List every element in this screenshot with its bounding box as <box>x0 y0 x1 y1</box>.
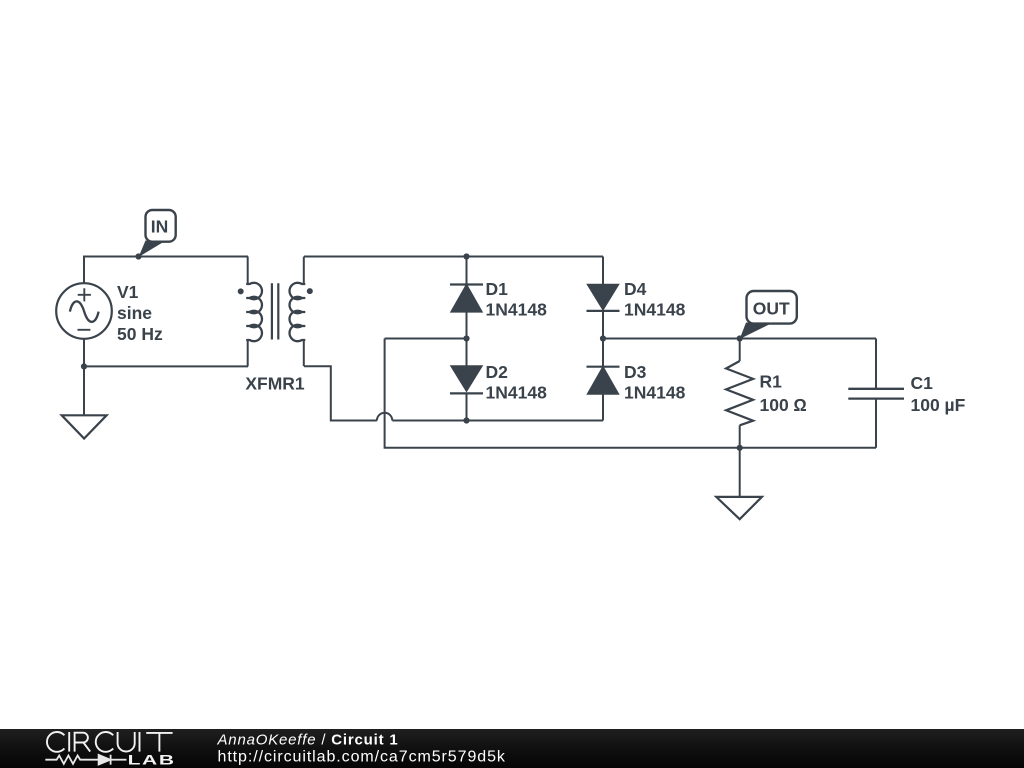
node OUT / R1 top <box>737 335 743 341</box>
svg-text:D4: D4 <box>624 279 647 299</box>
label C1 <box>911 373 966 415</box>
svg-text:D2: D2 <box>486 362 509 382</box>
wire V1 bottom to transformer primary bottom <box>84 339 248 367</box>
flag OUT <box>740 291 797 339</box>
transformer XFMR1 secondary winding <box>290 257 306 367</box>
svg-text:1N4148: 1N4148 <box>486 300 548 320</box>
svg-text:1N4148: 1N4148 <box>624 383 686 403</box>
diode D4 <box>587 257 620 339</box>
svg-text:AnnaOKeeffe / Circuit 1: AnnaOKeeffe / Circuit 1 <box>217 732 399 749</box>
svg-text:sine: sine <box>117 303 152 323</box>
wire V1 top to transformer primary <box>84 257 248 284</box>
svg-text:50 Hz: 50 Hz <box>117 324 163 344</box>
node D1/D2 junction <box>463 335 469 341</box>
wire mid rail D4/D3 junction to OUT / R1 / C1 <box>603 338 876 340</box>
svg-text:LAB: LAB <box>128 752 176 768</box>
logo resistor-diode glyph <box>45 755 126 765</box>
node top rail / D1 <box>463 253 469 259</box>
wire diode bottom rail <box>392 420 603 422</box>
svg-text:OUT: OUT <box>753 299 790 319</box>
flag IN <box>139 210 176 257</box>
label D4 <box>624 279 686 320</box>
transformer XFMR1 primary winding <box>246 257 262 367</box>
node D4/D3 junction <box>600 335 606 341</box>
transformer primary polarity dot <box>238 288 244 294</box>
transformer secondary polarity dot <box>307 288 313 294</box>
diode D3 <box>587 339 620 421</box>
svg-text:D3: D3 <box>624 362 647 382</box>
node IN junction <box>135 253 141 259</box>
label D2 <box>486 362 548 403</box>
voltage source V1 <box>56 283 112 339</box>
label D3 <box>624 362 686 403</box>
capacitor C1 <box>848 339 904 448</box>
label V1 value <box>117 282 163 344</box>
svg-text:http://circuitlab.com/ca7cm5r5: http://circuitlab.com/ca7cm5r579d5k <box>218 749 506 766</box>
svg-text:1N4148: 1N4148 <box>624 300 686 320</box>
resistor R1 <box>726 339 753 448</box>
svg-text:V1: V1 <box>117 282 139 302</box>
label D1 <box>486 279 548 320</box>
node D2 bottom rail <box>463 417 469 423</box>
diode D1 <box>450 257 483 339</box>
logo CIRCUIT wordmark <box>47 732 173 752</box>
svg-text:100 µF: 100 µF <box>911 395 966 415</box>
svg-text:100 Ω: 100 Ω <box>760 395 808 415</box>
label R1 <box>760 371 808 414</box>
wire hop over vertical <box>377 413 392 421</box>
wire secondary bottom to diode bottom rail <box>304 366 377 420</box>
wire secondary top rail to D1,D4 <box>304 256 603 258</box>
svg-text:D1: D1 <box>486 279 509 299</box>
ground (right, under R1) <box>716 448 762 519</box>
svg-text:C1: C1 <box>911 373 934 393</box>
diode D2 <box>450 339 483 421</box>
svg-text:IN: IN <box>151 217 169 237</box>
svg-text:1N4148: 1N4148 <box>486 383 548 403</box>
node V1 bottom / ground <box>81 363 87 369</box>
wire mid-left rail (D1/D2 junction to jog) <box>385 338 467 340</box>
wire negative rail vertical and bottom run <box>385 339 876 448</box>
svg-text:R1: R1 <box>760 371 783 391</box>
svg-text:XFMR1: XFMR1 <box>245 373 305 393</box>
ground (left, under V1) <box>62 366 107 438</box>
transformer core <box>272 283 278 339</box>
node R1 bottom / ground <box>737 445 743 451</box>
